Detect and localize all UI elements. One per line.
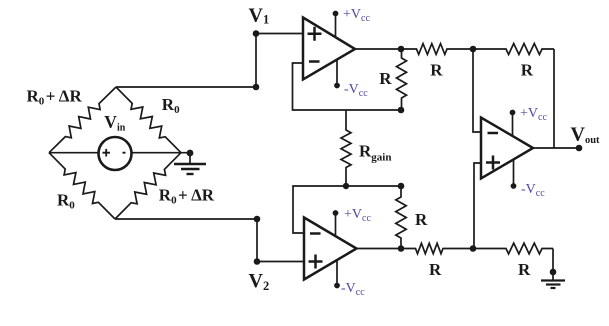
U3 -Vcc pin [513,160,515,187]
svg-text:R0 + ΔR: R0 + ΔR [159,186,215,207]
svg-text:R: R [430,60,443,79]
junction dot U3 plus node [470,245,477,252]
U2 plus input symbol [309,255,323,269]
resistor R top row right (feedback) [473,44,554,55]
wire bridge bottom to V2 junction [115,218,257,220]
wire V1 vertical [255,34,257,88]
svg-text:R: R [518,260,531,279]
wire V2 to U2 + input [257,261,304,263]
ground at bridge right node [189,153,191,164]
ground bottom right [541,279,565,281]
U1 minus input symbol [309,60,320,63]
resistor R vertical lower [396,186,406,249]
resistor R0+dR top-left arm [49,87,116,153]
wire U2 feedback (inverting input loop) [293,186,401,233]
node Vout dot [576,145,583,152]
node V1 dot [253,30,260,37]
U3 +Vcc pin [512,113,514,137]
svg-text:+Vcc: +Vcc [343,7,370,24]
op-amp U1 triangle [303,18,355,80]
svg-text:V1: V1 [249,5,270,27]
op-amp U2 triangle [304,218,357,280]
resistor R0+dR bottom-right arm [115,153,181,219]
U1 -Vcc pin [336,60,338,86]
wire U3 plus input [474,163,481,249]
junction dot bridge-ground node [187,150,194,157]
svg-text:+Vcc: +Vcc [344,207,371,224]
wire U3 output [533,147,579,149]
node V2 dot [254,258,261,265]
junction dot Rgain bottom [343,183,349,189]
U1 +Vcc pin [335,14,337,38]
junction dot lower feedback node [398,183,405,190]
resistor R vertical upper [397,49,407,110]
svg-text:+Vcc: +Vcc [520,106,547,123]
svg-text:R0: R0 [162,95,180,116]
wire V1 to U1 + input [256,33,303,35]
resistor Rgain [341,110,351,186]
junction dot upper feedback node [398,107,405,114]
U2 -Vcc pin [336,260,338,286]
wire U3 feedback right vertical [553,49,555,148]
resistor R top row left [401,44,473,55]
voltage source Vin [99,137,132,170]
junction dot U3 minus node [470,46,477,53]
wire U2 output [357,248,402,250]
wire bridge top to V1 junction [116,86,256,88]
junction dot U2 output node [398,245,405,252]
svg-text:V2: V2 [249,270,270,293]
wire U1 feedback (inverting input loop) [293,63,402,110]
resistor R0 top-right arm [116,87,181,153]
resistor R bottom row right (to ground) [473,243,553,254]
svg-text:R0: R0 [57,191,75,212]
svg-text:-Vcc: -Vcc [341,281,365,298]
svg-text:R: R [521,60,534,79]
wire U1 output [355,48,401,50]
junction dot at bridge top line [253,84,260,91]
wire bridge mid horizontal (node to ground) [49,152,190,154]
U3 plus input symbol [486,156,500,170]
junction dot above ground [550,269,557,276]
junction dot at bridge bottom line [254,216,261,223]
svg-text:Vin: Vin [104,112,125,134]
resistor R0 bottom-left arm [49,153,115,219]
wire V2 vertical [256,219,258,262]
U3 minus input symbol [488,132,499,135]
U2 minus input symbol [310,232,321,235]
svg-text:R: R [415,210,428,229]
svg-text:R: R [379,69,392,88]
op-amp U3 triangle [481,118,533,179]
U2 +Vcc pin [335,213,337,236]
svg-text:R0 + ΔR: R0 + ΔR [27,86,83,107]
svg-text:Vout: Vout [571,124,601,147]
svg-text:-Vcc: -Vcc [344,82,368,99]
U1 plus input symbol [308,27,322,41]
svg-text:-Vcc: -Vcc [521,182,545,199]
svg-text:Rgain: Rgain [359,142,391,164]
wire U3 minus input [473,49,481,132]
resistor R bottom row left [401,243,473,253]
wire to bottom-right ground [552,249,554,281]
svg-text:R: R [429,260,442,279]
junction dot U1 output node [398,46,405,53]
